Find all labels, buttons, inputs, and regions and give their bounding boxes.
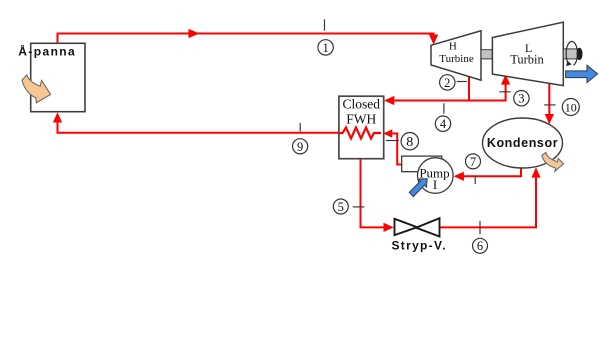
arrow into L turbine inlet: [501, 74, 510, 84]
svg-text:1: 1: [322, 41, 328, 55]
boiler heat input arrow: [22, 75, 51, 103]
arrow into valve: [384, 223, 394, 232]
svg-text:I: I: [433, 177, 437, 192]
throttle valve Stryp-V: [395, 218, 440, 236]
wire H turbine exhaust: [468, 77, 470, 102]
node 7: [466, 154, 481, 184]
shaft between turbines: [481, 50, 492, 59]
svg-text:8: 8: [406, 135, 413, 150]
pump inlet box: [402, 156, 442, 172]
shaft end cap: [577, 48, 583, 60]
svg-text:7: 7: [470, 155, 476, 169]
node 1: [318, 19, 333, 55]
node 9: [293, 123, 308, 154]
node 3: [499, 91, 529, 106]
wire pump discharge to FWH tubes: [391, 134, 403, 165]
node 2: [440, 75, 467, 90]
svg-text:Turbine: Turbine: [439, 53, 474, 65]
FWH tube zigzag: [339, 128, 381, 139]
boiler A-panna: [31, 43, 85, 111]
svg-text:10: 10: [565, 100, 577, 114]
wire condensate condenser to pump: [461, 168, 521, 177]
wire FWH drain to valve: [361, 159, 387, 228]
svg-text:9: 9: [297, 140, 303, 154]
arrow on main steam line: [189, 29, 200, 38]
svg-text:Stryp-V.: Stryp-V.: [392, 239, 447, 253]
wire feedwater line FWH to boiler: [58, 120, 339, 133]
shaft rotation indicator: [566, 41, 577, 65]
arrow into H turbine inlet: [429, 35, 438, 45]
arrow into FWH tube inlet: [383, 129, 392, 138]
svg-text:FWH: FWH: [346, 111, 376, 126]
svg-text:5: 5: [338, 200, 344, 214]
svg-text:Å-panna: Å-panna: [18, 44, 76, 59]
node 6: [473, 221, 488, 253]
condenser: [483, 118, 563, 168]
pump drive blue arrow: [409, 179, 427, 197]
svg-text:2: 2: [444, 76, 450, 90]
svg-text:Kondensor: Kondensor: [487, 136, 558, 150]
arrow into condenser bottom: [531, 167, 540, 177]
wire extraction header: [392, 100, 506, 102]
svg-text:6: 6: [477, 239, 483, 253]
arrow into pump: [454, 172, 464, 181]
wire valve outlet to condenser bottom: [440, 174, 536, 227]
wire L turbine exhaust to condenser: [548, 84, 550, 118]
arrow into FWH shell: [384, 96, 394, 105]
node 4: [435, 103, 450, 131]
shaft power blue arrow: [566, 65, 598, 82]
wire main steam line boiler to H turbine: [58, 34, 434, 44]
H turbine U1: [431, 31, 481, 80]
pump P1: [418, 158, 454, 194]
svg-text:4: 4: [440, 117, 447, 131]
svg-text:Turbin: Turbin: [510, 52, 544, 66]
node 5: [333, 199, 364, 214]
svg-text:3: 3: [518, 92, 524, 106]
node 8: [386, 133, 419, 151]
svg-text:Closed: Closed: [343, 96, 381, 111]
condenser heat rejection arrow: [542, 153, 564, 172]
L turbine U2: [492, 22, 563, 85]
node 10: [544, 99, 579, 116]
svg-text:H: H: [449, 41, 457, 53]
closed FWH: [339, 96, 384, 159]
arrow into condenser top: [545, 114, 554, 124]
wire L turbine inlet riser: [505, 82, 507, 102]
output shaft: [563, 49, 578, 59]
rotation arrowhead: [566, 61, 572, 67]
arrow into boiler bottom: [53, 112, 62, 122]
